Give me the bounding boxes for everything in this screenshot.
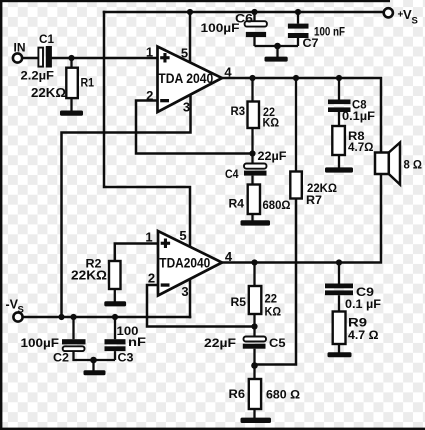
- node C2/C3 ground junction: [90, 357, 97, 364]
- ground C2/C3: [84, 360, 106, 375]
- svg-text:3: 3: [181, 284, 188, 299]
- node C5/R6/R7 junction: [251, 362, 258, 369]
- ground R1: [60, 111, 83, 116]
- svg-text:4.7 Ω: 4.7 Ω: [348, 328, 379, 342]
- svg-text:22µF: 22µF: [258, 149, 287, 163]
- resistor R9: [333, 312, 379, 353]
- svg-text:4: 4: [224, 64, 232, 79]
- op-amp U2 TDA2040: [145, 228, 233, 299]
- capacitor C1: [21, 34, 55, 83]
- svg-text:S: S: [18, 305, 24, 316]
- wire U2 output to speaker bottom: [222, 174, 381, 263]
- wire +Vs top rail: [104, 11, 384, 14]
- wire pin1 U2 to R2: [115, 244, 158, 262]
- node R3/C4 feedback junction: [249, 150, 255, 156]
- svg-text:nF: nF: [128, 335, 146, 349]
- resistor R4: [229, 185, 291, 221]
- node C2 top: [70, 314, 76, 320]
- svg-text:1: 1: [145, 230, 152, 245]
- capacitor C7: [278, 12, 346, 50]
- node R5 top: [251, 259, 257, 265]
- wire pin2 U1 feedback to R3/C4 node: [136, 101, 253, 154]
- svg-text:2.2µF: 2.2µF: [21, 69, 55, 83]
- svg-text:R1: R1: [81, 75, 95, 89]
- terminal IN: [13, 42, 26, 62]
- svg-text:R5: R5: [231, 295, 247, 309]
- resistor R1: [31, 58, 94, 111]
- svg-text:TDA2040: TDA2040: [159, 256, 210, 271]
- svg-text:680Ω: 680Ω: [263, 198, 291, 212]
- svg-text:R3: R3: [231, 104, 246, 118]
- svg-text:C4: C4: [225, 167, 239, 181]
- node pin3 U1 wire on -Vs rail: [58, 314, 64, 320]
- wire -Vs rail: [23, 316, 191, 319]
- capacitor C2: [21, 317, 116, 365]
- ground R8: [325, 167, 353, 172]
- op-amp U1 TDA2040: [146, 44, 233, 114]
- node C6 top: [251, 9, 257, 15]
- node C7 top: [295, 9, 301, 15]
- node C3 top: [112, 314, 118, 320]
- svg-text:KΩ: KΩ: [263, 116, 280, 130]
- svg-text:22KΩ: 22KΩ: [31, 86, 66, 100]
- svg-text:R7: R7: [306, 193, 322, 207]
- resistor R3: [231, 78, 280, 154]
- wire +Vs rail corner down to op2 supply: [104, 12, 190, 248]
- ground R9: [328, 352, 352, 357]
- wire U1 output to speaker top: [222, 78, 381, 153]
- resistor R6: [229, 366, 301, 419]
- capacitor C9: [325, 263, 381, 312]
- svg-text:100µF: 100µF: [201, 21, 240, 35]
- svg-text:100 nF: 100 nF: [314, 24, 345, 38]
- svg-text:1: 1: [146, 44, 153, 59]
- label U2 minus input: [161, 283, 170, 286]
- node input/R1 junction: [68, 55, 74, 61]
- svg-text:5: 5: [179, 228, 186, 243]
- svg-text:TDA 2040: TDA 2040: [158, 71, 213, 86]
- svg-text:C3: C3: [118, 351, 134, 365]
- node R7 top: [293, 75, 299, 81]
- svg-text:22µF: 22µF: [204, 336, 236, 350]
- node C6/C7 ground junction: [274, 43, 281, 50]
- capacitor C4: [225, 149, 287, 185]
- svg-text:R4: R4: [229, 197, 245, 211]
- wire pin3 U2 to -Vs rail: [189, 279, 192, 317]
- capacitor C6: [201, 11, 278, 46]
- svg-text:22KΩ: 22KΩ: [71, 268, 107, 282]
- svg-text:IN: IN: [14, 42, 26, 54]
- svg-text:2: 2: [148, 271, 155, 286]
- wire R7 bottom to C5/R6 node: [255, 199, 297, 365]
- resistor R8: [332, 126, 374, 168]
- resistor R5: [231, 263, 282, 327]
- label U1 plus input: [160, 53, 169, 63]
- label U1 minus input: [160, 99, 169, 102]
- svg-text:C5: C5: [269, 336, 286, 350]
- svg-text:3: 3: [183, 100, 190, 115]
- ground R2: [104, 301, 126, 306]
- svg-text:2: 2: [146, 88, 153, 103]
- svg-text:4.7Ω: 4.7Ω: [348, 140, 374, 154]
- node R5/C5 feedback junction: [251, 323, 257, 329]
- capacitor C5: [204, 327, 286, 366]
- svg-text:0.1µF: 0.1µF: [342, 109, 375, 123]
- svg-text:22: 22: [265, 291, 278, 305]
- svg-text:C1: C1: [39, 34, 55, 46]
- wire pin2 U2 feedback to R5/C5 node: [147, 285, 255, 327]
- speaker 8Ω: [375, 143, 422, 185]
- ground R4: [241, 220, 271, 225]
- wire pin5 U1 to +Vs rail: [189, 12, 192, 62]
- wire C1 to pin1 U1: [52, 57, 158, 60]
- svg-text:S: S: [412, 16, 418, 27]
- wire input node to pin1 U1: [23, 57, 39, 60]
- svg-text:100µF: 100µF: [21, 336, 60, 350]
- capacitor C3: [105, 317, 147, 365]
- node C8 top: [336, 75, 342, 81]
- svg-text:5: 5: [181, 45, 188, 60]
- svg-text:KΩ: KΩ: [265, 304, 282, 318]
- terminal -Vs: [6, 297, 24, 321]
- svg-text:4: 4: [225, 249, 233, 264]
- node R3 top: [249, 75, 255, 81]
- wire pin3 U1 down-left to -Vs rail: [62, 97, 191, 318]
- svg-text:R6: R6: [229, 387, 246, 401]
- capacitor C8: [328, 78, 375, 126]
- resistor R2: [71, 256, 121, 301]
- ground C6/C7: [265, 46, 288, 62]
- node C9 top: [336, 259, 342, 265]
- resistor R7: [290, 78, 337, 207]
- label U2 plus input: [161, 239, 170, 249]
- svg-text:680 Ω: 680 Ω: [266, 387, 300, 401]
- svg-text:0.1 µF: 0.1 µF: [345, 297, 381, 311]
- ground R6: [241, 418, 272, 423]
- svg-text:C2: C2: [53, 351, 69, 365]
- terminal +Vs: [384, 7, 418, 27]
- svg-text:8 Ω: 8 Ω: [404, 157, 423, 171]
- node pin5 U1 rail junction: [187, 9, 193, 15]
